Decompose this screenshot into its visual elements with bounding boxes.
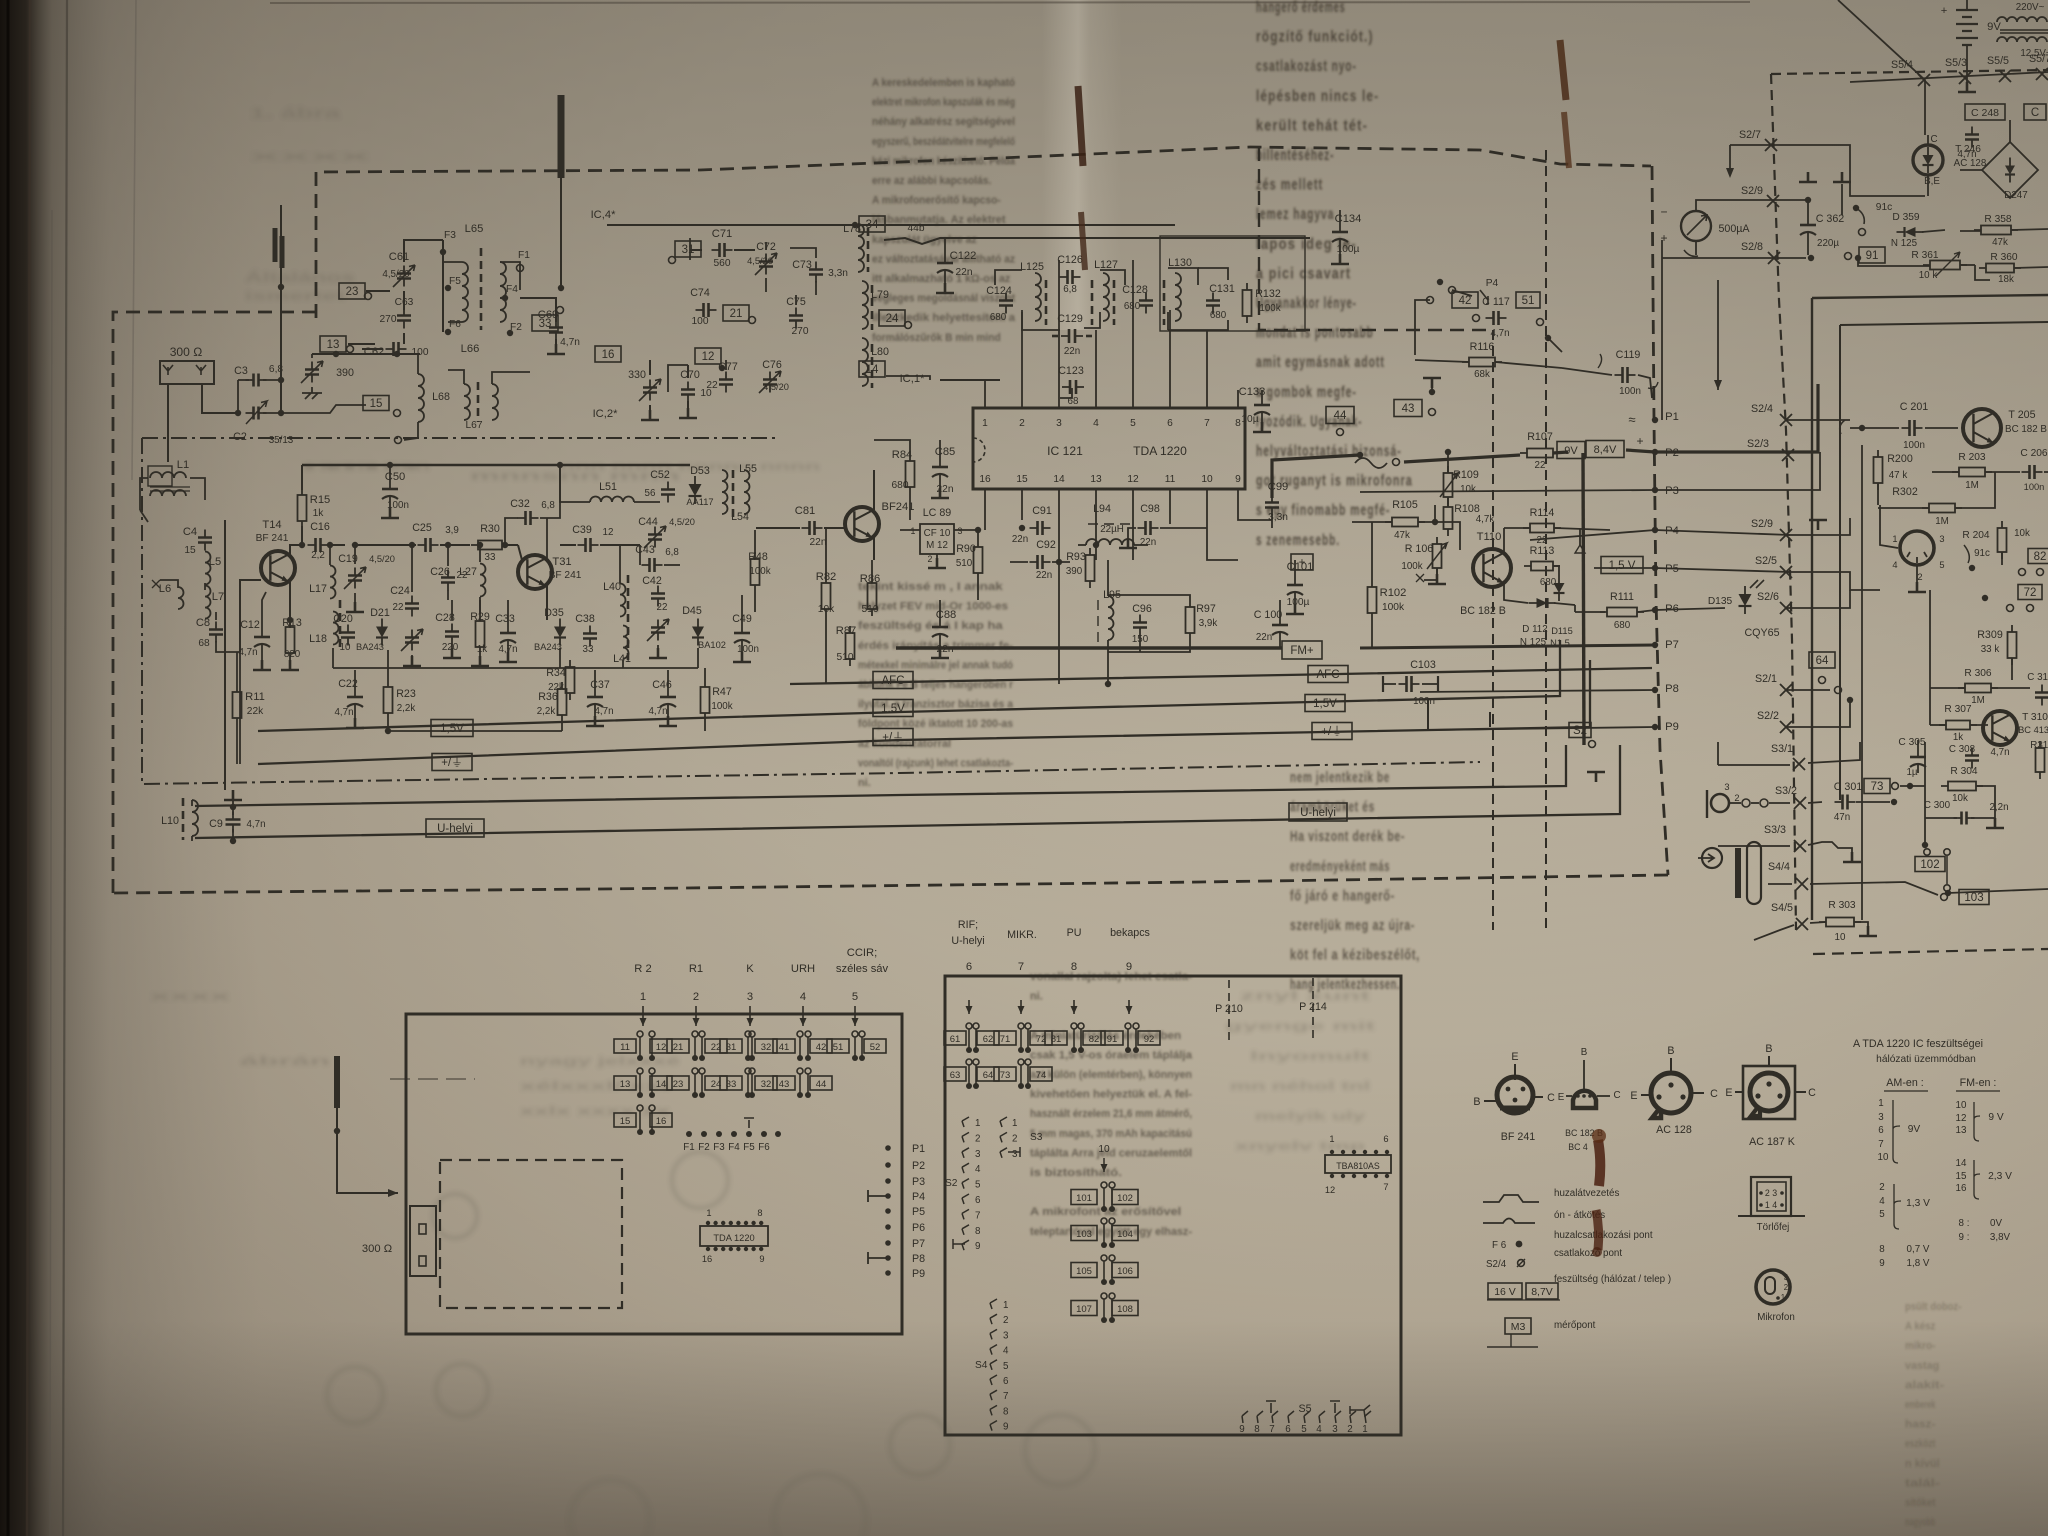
svg-text:BA243: BA243 — [534, 642, 562, 652]
svg-text:43: 43 — [1402, 403, 1415, 415]
svg-text:1M: 1M — [1935, 516, 1949, 527]
svg-text:22: 22 — [706, 380, 718, 391]
terminal 91 — [1845, 253, 1852, 260]
svg-text:R105: R105 — [1392, 499, 1418, 511]
resistor R302 1M — [1929, 504, 1955, 513]
svg-text:680: 680 — [1210, 310, 1227, 321]
svg-text:került tehát tét-: került tehát tét- — [1256, 117, 1368, 134]
svg-text:D21: D21 — [370, 607, 390, 619]
svg-text:L40: L40 — [603, 581, 621, 593]
svg-text:4,7k: 4,7k — [1476, 514, 1495, 525]
svg-text:S2/2: S2/2 — [1757, 710, 1779, 722]
svg-text:56: 56 — [645, 488, 656, 499]
svg-text:100k: 100k — [1401, 561, 1422, 572]
resistor R34 22k — [566, 667, 575, 693]
svg-text:9: 9 — [1003, 1422, 1008, 1433]
svg-text:BC 413 B: BC 413 B — [2018, 725, 2048, 735]
svg-text:E: E — [1558, 1092, 1565, 1103]
svg-text:R93: R93 — [1066, 551, 1086, 563]
svg-text:3: 3 — [1878, 1112, 1884, 1123]
svg-text:R 360: R 360 — [1990, 252, 2018, 263]
faint dash on pcb — [390, 1078, 475, 1080]
svg-text:6: 6 — [1878, 1125, 1884, 1136]
svg-text:köt fel a kézibeszélőt,: köt fel a kézibeszélőt, — [1290, 947, 1420, 964]
svg-text:fő járó e hangerő-: fő járó e hangerő- — [1290, 887, 1395, 904]
svg-text:10: 10 — [1956, 1100, 1967, 1111]
svg-text:C 117: C 117 — [1482, 296, 1510, 308]
resistor R114 22 — [1530, 524, 1554, 533]
svg-text:a gombok megfe-: a gombok megfe- — [1256, 384, 1357, 401]
terminal box 16 — [595, 346, 621, 362]
inductor L78 — [858, 224, 864, 272]
svg-text:1: 1 — [975, 1118, 980, 1129]
svg-text:15: 15 — [1956, 1171, 1967, 1182]
wire D-group to R111 — [1574, 605, 1576, 612]
svg-text:8,4V: 8,4V — [1594, 444, 1617, 456]
wire bottom to right edge — [1945, 890, 1951, 896]
svg-text:F6: F6 — [758, 1142, 770, 1153]
svg-text:5: 5 — [1130, 418, 1136, 429]
resistor R102 100k — [1368, 587, 1377, 613]
svg-text:10: 10 — [1201, 474, 1213, 485]
label box 1,5V right-mid — [1601, 557, 1643, 574]
svg-text:mondat is pontosabb: mondat is pontosabb — [1256, 325, 1374, 342]
svg-text:R1: R1 — [689, 963, 703, 975]
svg-text:9 V: 9 V — [1988, 1112, 2003, 1123]
svg-text:R114: R114 — [1530, 507, 1555, 519]
resistor R306 1M — [1965, 684, 1991, 693]
svg-text:R87: R87 — [836, 625, 857, 637]
svg-text:92: 92 — [1144, 1034, 1155, 1045]
svg-text:+/⏚: +/⏚ — [1321, 725, 1342, 738]
svg-text:AFC: AFC — [1317, 669, 1340, 681]
svg-text:ni.: ni. — [858, 777, 871, 789]
svg-text:8: 8 — [1879, 1244, 1885, 1255]
microphone jack — [1711, 794, 1729, 812]
svg-text:P6: P6 — [912, 1222, 925, 1234]
resistor R87 510 — [846, 633, 855, 659]
svg-text:A mikrofonerősítő kapcso-: A mikrofonerősítő kapcso- — [872, 195, 1001, 207]
svg-text:3: 3 — [1939, 534, 1944, 544]
svg-text:R116: R116 — [1470, 341, 1495, 353]
svg-text:510: 510 — [837, 652, 854, 663]
wire +/ground bus — [258, 660, 1590, 764]
svg-text:alakít-: alakít- — [1905, 1379, 1944, 1391]
svg-text:7: 7 — [1204, 418, 1210, 429]
svg-text:16: 16 — [702, 1254, 712, 1264]
terminal 82 — [2028, 549, 2048, 564]
svg-text:S2/4: S2/4 — [1751, 403, 1773, 415]
switch contact row 2 — [614, 1076, 636, 1090]
svg-text:82: 82 — [2034, 551, 2047, 563]
svg-text:C46: C46 — [652, 679, 672, 691]
svg-text:3: 3 — [975, 1149, 981, 1160]
svg-text:5: 5 — [1939, 560, 1944, 570]
resistor R203 1M — [1959, 468, 1985, 477]
svg-text:12: 12 — [702, 351, 715, 363]
svg-text:680: 680 — [892, 480, 909, 491]
svg-text:helyzet FEV mid-Or 1000-es: helyzet FEV mid-Or 1000-es — [858, 601, 1008, 613]
label box +/gnd mid — [873, 729, 913, 746]
svg-text:7: 7 — [1269, 1424, 1274, 1435]
svg-text:L17: L17 — [309, 583, 327, 595]
svg-text:22: 22 — [393, 602, 404, 613]
svg-text:4: 4 — [800, 991, 806, 1003]
switch contacts row 2 (63..74) — [944, 1067, 966, 1081]
svg-text:IC,1*: IC,1* — [900, 373, 926, 385]
svg-text:2 3: 2 3 — [1765, 1188, 1777, 1198]
svg-text:S3/2: S3/2 — [1775, 785, 1797, 797]
capacitor C311 — [2035, 693, 2048, 698]
svg-text:15: 15 — [1016, 474, 1028, 485]
svg-text:PU: PU — [1067, 927, 1082, 939]
svg-text:R 204: R 204 — [1962, 530, 1990, 541]
label box 15V right — [1305, 695, 1345, 712]
svg-text:1: 1 — [1781, 1293, 1785, 1302]
svg-text:F4: F4 — [728, 1142, 740, 1153]
svg-text:L125: L125 — [1020, 261, 1044, 273]
svg-text:P7: P7 — [1665, 639, 1679, 651]
diode D21 BA243 — [376, 627, 388, 638]
svg-text:C52: C52 — [650, 469, 670, 481]
svg-text:Mikrofon: Mikrofon — [1757, 1312, 1795, 1323]
svg-text:A TDA 1220 IC feszültségei: A TDA 1220 IC feszültségei — [1853, 1038, 1983, 1050]
terminal 73 — [1864, 779, 1890, 794]
svg-text:xxlx xxxx xx: xxlx xxxx xx — [520, 1104, 671, 1118]
capacitor C77 22 — [719, 380, 733, 385]
capacitor C63 270 — [397, 316, 411, 321]
svg-text:680: 680 — [1540, 577, 1557, 588]
svg-text:4: 4 — [1093, 418, 1099, 429]
switch 91c top — [1853, 205, 1859, 211]
capacitor C2 35/13 trimmer — [254, 407, 259, 420]
svg-text:C119: C119 — [1616, 349, 1641, 361]
svg-text:0V: 0V — [1990, 1218, 2002, 1229]
svg-text:2: 2 — [693, 991, 699, 1003]
svg-text:RIF;: RIF; — [958, 919, 978, 931]
svg-text:16 V: 16 V — [1494, 1286, 1516, 1298]
svg-text:L41: L41 — [613, 653, 631, 665]
svg-text:feszültség (hálózat / telep ): feszültség (hálózat / telep ) — [1554, 1274, 1671, 1285]
capacitor C103 100n — [1407, 676, 1412, 692]
svg-text:22n: 22n — [1064, 346, 1080, 357]
trimmer 390 to ground — [305, 370, 319, 375]
resistor R200 47k — [1874, 457, 1883, 483]
svg-text:P8: P8 — [912, 1253, 925, 1265]
legend measuring point — [1505, 1318, 1531, 1334]
svg-text:C122: C122 — [950, 250, 977, 262]
svg-text:3,9: 3,9 — [445, 525, 459, 536]
svg-text:C124: C124 — [986, 285, 1012, 297]
svg-text:R107: R107 — [1527, 431, 1553, 443]
svg-text:AA117: AA117 — [686, 497, 713, 507]
svg-text:L55: L55 — [739, 463, 757, 475]
svg-text:C92: C92 — [1036, 539, 1056, 551]
dash-dot inner boundary — [142, 437, 780, 439]
svg-text:10k: 10k — [818, 604, 835, 615]
svg-text:4,5/20: 4,5/20 — [382, 269, 410, 280]
svg-text:D45: D45 — [682, 605, 702, 617]
typewritten right column — [1256, 0, 1413, 549]
svg-text:C131: C131 — [1209, 283, 1235, 295]
svg-text:L94: L94 — [1093, 503, 1111, 515]
inductor L5 — [205, 552, 211, 585]
inductor L51 — [590, 497, 634, 503]
svg-text:2: 2 — [975, 1133, 980, 1144]
svg-text:500µA: 500µA — [1718, 223, 1750, 235]
svg-text:10k: 10k — [1460, 484, 1476, 495]
capacitor C42 22 — [651, 594, 665, 599]
inductor L27 — [480, 564, 486, 597]
svg-text:2,2: 2,2 — [311, 550, 325, 561]
capacitor C248 4,7n — [1965, 104, 2005, 120]
svg-text:33: 33 — [583, 644, 594, 655]
tear marks right of fold — [1560, 40, 1566, 100]
svg-text:C 301: C 301 — [1834, 781, 1863, 793]
capacitor C3 6,8 — [254, 374, 259, 387]
capacitor C98 22n — [1146, 521, 1151, 535]
capacitor C308 4,7n — [1965, 756, 1979, 761]
svg-text:2,2n: 2,2n — [1989, 802, 2008, 813]
svg-text:22n: 22n — [1256, 632, 1272, 643]
typewritten middle column lower — [858, 581, 1014, 789]
svg-text:24: 24 — [886, 313, 899, 325]
svg-text:12: 12 — [1127, 474, 1139, 485]
svg-text:4: 4 — [1316, 1424, 1322, 1435]
svg-text:lemez hagyva: lemez hagyva — [1256, 206, 1334, 223]
page spine / book edge — [7, 0, 10, 1536]
svg-text:R23: R23 — [396, 688, 416, 700]
capacitor C100 22n — [1272, 624, 1288, 627]
svg-text:8: 8 — [1003, 1406, 1009, 1417]
svg-text:C123: C123 — [1058, 365, 1084, 377]
capacitor C131 680 — [1206, 301, 1220, 306]
terminal 72 — [2018, 585, 2042, 600]
capacitor C26 22 — [441, 578, 455, 583]
svg-text:2: 2 — [1347, 1424, 1352, 1435]
svg-text:Törlőfej: Törlőfej — [1757, 1222, 1790, 1233]
transistor T14 BF241 — [261, 551, 295, 585]
svg-text:C12: C12 — [240, 619, 260, 631]
thick wire pin9 rail — [1238, 519, 1272, 521]
capacitor C123 68 — [1070, 380, 1076, 394]
switch panel box — [945, 976, 1401, 1435]
svg-text:AC 128: AC 128 — [1656, 1124, 1692, 1136]
svg-text:R132: R132 — [1255, 288, 1281, 300]
svg-text:11: 11 — [620, 1042, 630, 1053]
svg-text:12: 12 — [1325, 1185, 1335, 1195]
svg-text:2: 2 — [1012, 1133, 1017, 1144]
svg-text:R312: R312 — [2030, 740, 2048, 751]
svg-text:330: 330 — [628, 369, 646, 381]
svg-text:csak 1,5 V-os óraelem táplá: csak 1,5 V-os óraelem táplálja — [1030, 1049, 1193, 1061]
svg-text:C16: C16 — [310, 521, 330, 533]
svg-text:P1: P1 — [1665, 411, 1679, 423]
resistor R132 100k — [1243, 290, 1252, 316]
svg-text:4,7n: 4,7n — [594, 706, 613, 717]
svg-text:TDA 1220: TDA 1220 — [713, 1233, 754, 1243]
svg-text:4,7n: 4,7n — [334, 707, 353, 718]
svg-text:P2: P2 — [912, 1160, 925, 1172]
legend voltage boxes — [1488, 1283, 1522, 1299]
svg-text:1,8 V: 1,8 V — [1907, 1258, 1930, 1269]
capacitor C201 100n — [1910, 420, 1915, 436]
svg-text:D 359: D 359 — [1892, 212, 1920, 223]
svg-text:73: 73 — [1000, 1070, 1011, 1081]
thick wire FM+ rail — [896, 646, 1282, 649]
svg-text:IC,4*: IC,4* — [591, 209, 617, 221]
svg-text:1k: 1k — [477, 644, 487, 655]
svg-text:C103: C103 — [1410, 659, 1436, 671]
svg-text:2: 2 — [1784, 1283, 1788, 1292]
svg-text:1: 1 — [1892, 534, 1897, 544]
svg-text:F5: F5 — [743, 1142, 755, 1153]
filter LC89 CF10 M12 — [920, 524, 954, 554]
svg-text:22k: 22k — [247, 706, 264, 717]
svg-text:hálózati üzemmódban: hálózati üzemmódban — [1876, 1054, 1976, 1065]
resistor R361 10k pot — [1930, 261, 1960, 270]
capacitor C28 220 — [445, 632, 459, 637]
svg-text:AC 128: AC 128 — [1954, 158, 1987, 169]
svg-text:100n: 100n — [1903, 440, 1925, 451]
svg-text:3: 3 — [1012, 1149, 1018, 1160]
svg-text:1: 1 — [706, 1208, 711, 1218]
svg-text:9: 9 — [975, 1241, 980, 1252]
dashed switch linkage S2 right — [1545, 150, 1547, 930]
capacitor C69 4,7n — [549, 328, 563, 333]
svg-text:4,5/20: 4,5/20 — [763, 382, 789, 392]
resistor R303 10 — [1826, 918, 1854, 927]
svg-text:széles sáv: széles sáv — [836, 963, 889, 975]
terminal 102 — [1924, 849, 1930, 855]
svg-text:68: 68 — [198, 638, 210, 649]
svg-text:S5: S5 — [1298, 1403, 1311, 1415]
resistor R113 680 — [1531, 562, 1553, 571]
svg-text:R86: R86 — [860, 573, 881, 585]
svg-text:100n: 100n — [1413, 696, 1435, 707]
svg-text:47n: 47n — [1834, 812, 1850, 823]
capacitor C128 680 — [1139, 301, 1153, 306]
svg-text:C81: C81 — [795, 505, 816, 517]
terminal box 33 — [532, 315, 558, 331]
svg-text:BC 182 B: BC 182 B — [2005, 424, 2047, 435]
svg-text:huzalátvezetés: huzalátvezetés — [1554, 1188, 1619, 1199]
svg-text:T14: T14 — [262, 519, 281, 531]
svg-text:teleptartóval együtt egy el: teleptartóval együtt egy elhasz- — [1030, 1226, 1192, 1238]
svg-text:lépésben nincs le-: lépésben nincs le- — [1256, 88, 1379, 105]
svg-text:nagyobb: nagyobb — [1905, 1517, 1936, 1529]
svg-text:B: B — [1765, 1043, 1772, 1055]
resistor R48 100k — [751, 559, 760, 585]
label box U-helyi left — [426, 819, 484, 837]
svg-text:Ha viszont derék be-: Ha viszont derék be- — [1290, 828, 1405, 845]
bridge rectifier D247 — [1982, 142, 2038, 198]
svg-text:22n: 22n — [810, 537, 827, 548]
svg-text:mikro-: mikro- — [1905, 1340, 1936, 1352]
svg-text:C37: C37 — [590, 679, 610, 691]
wires IC top pins — [984, 380, 986, 408]
svg-text:S5/5: S5/5 — [1987, 55, 2009, 67]
capacitor C99 3,3n — [1265, 503, 1279, 508]
battery 9V — [1956, 10, 1978, 45]
svg-text:MIKR.: MIKR. — [1007, 929, 1037, 941]
svg-text:M3: M3 — [1511, 1321, 1526, 1333]
svg-text:100k: 100k — [749, 566, 770, 577]
svg-text:M 12: M 12 — [926, 540, 948, 551]
svg-text:6: 6 — [966, 961, 972, 973]
svg-text:C9: C9 — [209, 818, 223, 830]
svg-text:L65: L65 — [465, 223, 484, 235]
svg-text:5: 5 — [1003, 1361, 1009, 1372]
svg-text:lnyomult: lnyomult — [1250, 1049, 1370, 1063]
svg-text:szereljük meg az újra-: szereljük meg az újra- — [1290, 917, 1415, 934]
svg-text:9V: 9V — [1564, 445, 1578, 457]
svg-text:C25: C25 — [412, 522, 432, 534]
svg-text:ismertet: ismertet — [245, 289, 345, 303]
svg-text:AFC: AFC — [882, 675, 905, 687]
svg-text:C 305: C 305 — [1898, 737, 1926, 748]
svg-text:S3/3: S3/3 — [1764, 824, 1786, 836]
svg-text:1,5V: 1,5V — [1313, 698, 1337, 710]
svg-text:14: 14 — [1053, 474, 1065, 485]
svg-text:BC 182 B: BC 182 B — [1460, 605, 1506, 617]
svg-text:32: 32 — [761, 1042, 772, 1053]
svg-text:0,7 V: 0,7 V — [1907, 1244, 1930, 1255]
wires FM tuner interconnect — [689, 238, 691, 260]
svg-text:D247: D247 — [2004, 190, 2027, 201]
svg-text:C62: C62 — [364, 346, 385, 358]
inductor L6 — [178, 587, 184, 609]
svg-text:8: 8 — [1254, 1424, 1260, 1435]
trimmer 330 — [643, 388, 657, 393]
antenna symbol right — [1809, 520, 1827, 530]
svg-text:ábrán: ábrán — [240, 1054, 330, 1068]
svg-text:1 4: 1 4 — [1765, 1200, 1777, 1210]
svg-text:106: 106 — [1117, 1266, 1133, 1277]
capacitor C96 150 — [1112, 600, 1168, 656]
svg-text:L66: L66 — [461, 343, 480, 355]
svg-text:C: C — [1547, 1092, 1555, 1104]
svg-text:6: 6 — [1285, 1424, 1291, 1435]
svg-text:3: 3 — [1003, 1330, 1009, 1341]
svg-text:8: 8 — [757, 1208, 762, 1218]
svg-text:D115: D115 — [1551, 626, 1573, 636]
wire AFC bus — [790, 668, 1652, 684]
svg-text:T 205: T 205 — [2008, 409, 2035, 421]
svg-text:10µ: 10µ — [1241, 414, 1258, 425]
svg-text:4: 4 — [1892, 560, 1897, 570]
svg-text:10 k: 10 k — [1919, 270, 1938, 281]
diode D53 AA117 — [689, 484, 702, 496]
svg-text:≈: ≈ — [1628, 412, 1635, 427]
wire vertical from amp — [1924, 742, 1926, 845]
dashed enclosure left — [113, 312, 316, 893]
svg-text:C 362: C 362 — [1816, 213, 1845, 225]
svg-text:4,7n: 4,7n — [1990, 747, 2009, 758]
fuse link to 9V rail — [1355, 458, 1387, 468]
svg-text:R 361: R 361 — [1911, 250, 1939, 261]
svg-text:2: 2 — [1003, 1315, 1008, 1326]
terminal box 13 — [320, 336, 346, 352]
svg-text:mn néhol tnl: mn néhol tnl — [1230, 1079, 1370, 1093]
inductor L40 L41 — [620, 584, 626, 617]
svg-text:5 mm magas, 370 mAh kapac: 5 mm magas, 370 mAh kapacitású — [1030, 1128, 1192, 1140]
F1-F6 trimmer dots — [686, 1131, 692, 1137]
svg-text:107: 107 — [1076, 1304, 1092, 1315]
svg-text:47k: 47k — [1992, 237, 2008, 248]
svg-text:3: 3 — [1724, 782, 1729, 792]
svg-text:xélxxxl/ xxt: xélxxxl/ xxt — [520, 1079, 670, 1093]
